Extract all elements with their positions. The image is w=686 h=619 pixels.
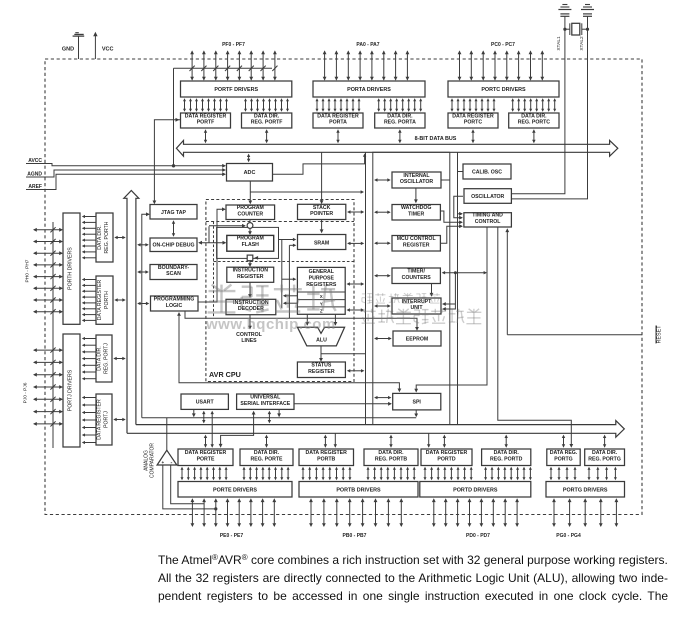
svg-text:8-BIT DATA BUS: 8-BIT DATA BUS [415,136,457,142]
arrow into OCD tap square [254,256,258,260]
bus link arrow data register PORTG [562,435,565,448]
wire TIMER/COUNTERS to timing line [442,271,487,274]
wire ADC output to data bus [273,153,367,174]
svg-text:DATA DIR.REG. PORTA: DATA DIR.REG. PORTA [384,113,416,125]
DATA REGISTER PORTD block [421,449,472,466]
svg-text:DATA DIR.REG. PORTD: DATA DIR.REG. PORTD [490,450,523,462]
RESET label with overline [656,325,663,344]
dashed divider above instruction register row [214,261,355,263]
pin label PF0 - PF7 [222,42,245,48]
svg-text:CONTROLLINES: CONTROLLINES [236,332,262,344]
bus link arrow data register PORTE [204,435,207,448]
wire ADC result to trunk [250,190,364,193]
svg-text:DATA DIR.REG. PORTF: DATA DIR.REG. PORTF [251,113,283,125]
debug access loop around PROGRAM FLASH [217,227,279,258]
arrow INSTRUCTION REGISTER to INSTRUCTION DECODER [248,282,252,298]
link arrow column bus to INTERRUPT UNIT [374,304,391,307]
watermark large characters [208,285,336,313]
DATA REGISTER PORTJ block [96,394,112,445]
AREF label and wire to ADC [26,172,226,190]
svg-text:AREF: AREF [28,184,42,190]
svg-text:XTAL1: XTAL1 [556,36,562,51]
pin label PA0 - PA7 [356,42,379,48]
link arrow column bus to SPI [374,396,391,399]
PJ0 - PJ6 pin label [23,382,29,403]
svg-text:PORTJ: PORTJ [103,411,109,428]
DATA DIR. REG. PORTJ block [96,335,112,382]
AVR CPU dashed boundary [206,200,354,382]
bus link arrow data dir register PORTG [603,435,606,448]
svg-text:PF0 - PF7: PF0 - PF7 [222,42,245,48]
DATA DIR. REG. PORTD block [482,449,531,466]
bus link arrow ADC [247,154,250,163]
svg-text:GENERALPURPOSEREGISTERS: GENERALPURPOSEREGISTERS [306,269,337,288]
watermark right row 2 [361,309,482,324]
DATA REGISTER PORTB block [299,449,354,466]
DATA DIR. REG. PORTB block [364,449,418,466]
PROGRAMMING LOGIC block [151,296,199,311]
ALU block [297,327,344,346]
wire flash data to GENERAL PURPOSE REGISTERS [282,240,297,309]
extra bus link arrow data register PORTB [334,433,337,447]
arrow cluster PORTJ drivers to data register [82,396,96,444]
arrow cluster PORTJ drivers to data dir register [82,337,96,380]
arrow cluster data dir PORTB to drivers [367,467,416,480]
svg-text:DATA DIR.REG. PORTC: DATA DIR.REG. PORTC [518,113,551,125]
svg-text:PH0 - PH7: PH0 - PH7 [25,259,31,282]
DATA REGISTER PORTA block [313,113,363,128]
svg-text:ADC: ADC [244,170,256,176]
arrow STACK POINTER to SRAM [320,220,324,234]
svg-text:COMPARATOR: COMPARATOR [150,443,156,478]
svg-text:INSTRUCTIONREGISTER: INSTRUCTIONREGISTER [233,268,269,280]
DATA DIR. REG. PORTH block [96,213,113,262]
wire ADC and data bus down to PROGRAM COUNTER [248,181,252,204]
wire ON-CHIP DEBUG to tap circle [209,224,246,243]
PORTC pin arrows PC0 - PC7 [458,50,545,80]
wire ON-CHIP DEBUG to flash [198,241,226,245]
bus link arrow data dir register PORTB [389,435,392,448]
wire timing control line B to PORTG registers [498,227,573,448]
EEPROM block [393,331,441,346]
link arrow column bus to INTERNAL OSCILLATOR [374,178,391,181]
wire PROGRAMMING LOGIC to PROGRAM COUNTER and flash [198,207,226,302]
INTERNAL OSCILLATOR block [392,172,441,188]
arrow cluster data register PORTB to drivers [302,467,352,480]
extra bus link arrow data register PORTD [427,433,430,447]
svg-text:PORTF DRIVERS: PORTF DRIVERS [214,87,258,93]
link arrow DATA REGISTER PORTH to internal bus [114,298,125,301]
svg-text:DATA DIR.REG. PORTE: DATA DIR.REG. PORTE [251,450,284,462]
AGND label and wire to ADC [26,168,226,177]
PORTD DRIVERS block [420,482,531,498]
dashed chip boundary border [45,59,642,515]
DATA DIR. REG. PORTF block [242,113,292,128]
link arrow column bus to WATCHDOG TIMER [374,211,391,214]
PORTJ DRIVERS block [63,334,80,447]
8-bit data bus top double-ended bus arrow [176,140,617,156]
8-bit data bus bottom arrow [127,421,624,438]
arrow cluster data register PORTG to drivers [550,467,577,480]
svg-text:USART: USART [196,400,215,406]
OCD tap circle on flash address path [247,223,253,229]
watermark right row 1 [362,293,440,303]
ADC block [227,164,273,182]
BOUNDARY-SCAN block [150,265,197,280]
TIMING AND CONTROL block [464,213,512,227]
big internal bus up-arrow to ports H and J [124,191,139,434]
wire into JTAG TAP left [142,212,150,417]
svg-text:DATA DIR.REG. PORTB: DATA DIR.REG. PORTB [375,450,408,462]
ON-CHIP DEBUG block [150,238,197,252]
bus link arrow DATA DIR REG PORTF [265,129,269,143]
arrow cluster data dir PORTG to drivers [588,467,617,480]
svg-text:STATUSREGISTER: STATUSREGISTER [308,363,335,375]
OCD tap square on flash data path [247,255,253,261]
wire pointer registers to SRAM [289,244,296,319]
svg-text:DATA DIR.REG. PORTG: DATA DIR.REG. PORTG [588,450,621,462]
PORTA pin arrows PA0 - PA7 [323,50,410,80]
svg-text:AVR CPU: AVR CPU [209,370,241,379]
svg-text:GND: GND [62,47,74,53]
svg-text:ON-CHIP DEBUG: ON-CHIP DEBUG [153,243,195,249]
svg-text:OSCILLATOR: OSCILLATOR [471,194,504,200]
PORTC DRIVERS block [448,81,559,97]
INSTRUCTION DECODER block [226,299,276,314]
PORTB DRIVERS block [299,482,418,498]
link arrow SRAM to trunk [347,242,364,245]
PORTE DRIVERS block [178,482,292,498]
arrow SPI to serial line [414,410,418,417]
DATA REGISTER PORTC block [448,113,498,128]
USART bus wires [192,409,214,447]
DATA DIR. REG. PORTG block [585,449,625,466]
arrow TIMER/COUNTERS to INTERRUPT UNIT [430,284,434,297]
PORTG DRIVERS block [546,482,625,498]
XTAL1 ground and capacitor symbol [558,5,571,17]
dashed divider under program counter row [206,221,354,223]
8-BIT DATA BUS label [415,136,457,142]
pin label PD0 - PD7 [466,533,490,539]
wire flash to INSTRUCTION REGISTER [248,261,252,267]
link arrow column bus to EEPROM [374,337,392,340]
bus link arrow data register PORTD [443,435,446,448]
wire CALIB OSC link [458,171,464,173]
wire timing control line C from RESET [505,228,642,334]
wire MCU CONTROL REGISTER to TIMING AND CONTROL [440,224,463,243]
link arrow trunk to Z register [347,308,365,311]
wire data bus down to STACK POINTER [320,152,324,204]
svg-text:+: + [161,460,164,465]
svg-text:PJ0 - PJ6: PJ0 - PJ6 [23,382,29,403]
svg-text:SRAM: SRAM [314,240,329,246]
arrow cluster PORTH drivers to data register [82,278,96,322]
watermark url [206,316,336,333]
XTAL2 ground and capacitor symbol [581,5,594,17]
bus link arrow DATA DIR REG PORTC [532,129,536,143]
svg-text:PB0 - PB7: PB0 - PB7 [343,533,367,539]
svg-text:PORTB DRIVERS: PORTB DRIVERS [336,487,381,493]
PORTE pin arrows [191,498,277,527]
caption paragraph [158,549,678,605]
analog input feed line from PORTF pins to ADC [172,66,278,168]
PH0 - PH7 pin label [25,259,31,282]
STATUS REGISTER block [297,362,345,378]
svg-text:RESET: RESET [657,325,663,344]
svg-text:STACKPOINTER: STACKPOINTER [310,205,333,217]
svg-text:TIMING ANDCONTROL: TIMING ANDCONTROL [472,213,503,225]
arrow cluster data register PORTD to drivers [424,467,473,480]
svg-text:PORTE DRIVERS: PORTE DRIVERS [213,487,257,493]
peripherals column frame [373,152,458,424]
svg-text:EEPROM: EEPROM [406,337,428,343]
XTAL1 label [556,36,562,51]
MCU CONTROL REGISTER block [392,236,440,252]
arrow to control lines [248,315,252,330]
wire timer to INTERRUPT UNIT inputs [442,271,457,311]
svg-text:ANALOG: ANALOG [143,450,149,471]
PORTD pin arrows [432,498,519,527]
AVR CPU label [209,370,241,379]
bus link arrow DATA DIR REG PORTA [398,129,402,143]
pin label PB0 - PB7 [343,533,367,539]
svg-text:PD0 - PD7: PD0 - PD7 [466,533,490,539]
arrows GPR to ALU [305,314,337,326]
svg-text:PORTD DRIVERS: PORTD DRIVERS [453,487,498,493]
wire timing control line A to SPI [414,227,487,393]
svg-text:XTAL2: XTAL2 [579,36,585,51]
VCC label [102,47,114,53]
PORTJ pin arrows [33,348,63,426]
link arrow trunk to STATUS REGISTER [347,369,365,372]
pin label PG0 - PG4 [556,533,581,539]
link arrow internal bus to PROGRAMMING LOGIC [137,302,149,305]
arrow cluster PORTC drivers to data register [451,98,496,111]
bus link arrow data dir register PORTE [265,435,268,448]
USART block [181,394,228,409]
SPI block [393,393,441,410]
STACK POINTER block [298,204,346,219]
PORTH pin arrows [33,228,63,314]
svg-text:AGND: AGND [27,171,42,177]
arrow INTERNAL OSCILLATOR to WATCHDOG TIMER [414,188,418,203]
svg-text:PORTH DRIVERS: PORTH DRIVERS [68,247,74,290]
DATA REGISTER PORTH block [96,276,113,324]
svg-text:DATA DIR.: DATA DIR. [97,346,103,370]
svg-text:REG. PORTJ: REG. PORTJ [103,343,109,374]
link arrow STACK POINTER to trunk [347,210,364,213]
svg-text:PE0 - PE7: PE0 - PE7 [220,533,244,539]
left analog crossing line with ticks PORTH/PORTJ [50,222,55,448]
bus link arrow data dir register PORTD [505,435,508,448]
wire WATCHDOG to TIMING AND CONTROL [440,211,463,224]
svg-text:PA0 - PA7: PA0 - PA7 [356,42,379,48]
wire PROGRAM FLASH to SRAM [279,238,297,241]
dashed flash section boundary [213,222,215,319]
PORTF pin arrows PF0 - PF7 [190,50,277,80]
VCC pin arrow [93,32,97,59]
PROGRAM COUNTER block [226,205,275,220]
svg-text:AVCC: AVCC [28,158,42,164]
CONTROL LINES label [236,332,262,344]
svg-text:PORTC DRIVERS: PORTC DRIVERS [481,87,526,93]
svg-text:PORTG DRIVERS: PORTG DRIVERS [563,487,608,493]
USI bus wires [219,409,281,447]
wire XTAL1 to oscillator [511,16,565,194]
wire from DATA REGISTER PORTF to JTAG TAP [153,118,181,204]
wire XTAL2 to oscillator [511,16,587,199]
arrow cluster PORTF drivers to data direction register [244,98,289,111]
arrow cluster PORTA drivers to data register [316,98,361,111]
DATA DIR. REG. PORTC block [509,113,559,128]
INTERRUPT UNIT block [392,298,441,314]
svg-text:PORTH: PORTH [104,291,110,309]
wire OSCILLATOR to TIMING AND CONTROL [454,196,463,219]
PORTG pin arrows [552,498,618,527]
PROGRAM FLASH block [227,235,274,251]
wire Y register tap [283,302,298,305]
link arrow internal bus to ON-CHIP DEBUG [137,243,149,246]
bus link arrow DATA REGISTER PORTA [336,129,339,143]
DATA REGISTER PORTE block [178,449,233,466]
wire X register tap [283,294,298,297]
long wire programming logic to EEPROM [185,311,419,331]
svg-text:PORTJ DRIVERS: PORTJ DRIVERS [68,369,74,411]
CALIB. OSC block [463,164,511,179]
wire vertical data bus branch left of peripherals column [365,152,367,424]
svg-text:DATA REGISTER: DATA REGISTER [97,280,103,321]
comparator input wires from PE pins [163,465,218,511]
ANALOG COMPARATOR label [143,443,155,478]
svg-text:CALIB. OSC: CALIB. OSC [472,170,502,176]
wire ALU to STATUS REGISTER [319,346,365,362]
GENERAL PURPOSE REGISTERS block with X Y Z [297,267,345,314]
link arrow DATA REGISTER PORTJ to internal bus [113,418,125,421]
svg-text:VCC: VCC [102,47,114,53]
link arrow column bus to MCU CONTROL REGISTER [374,242,391,245]
DATA DIR. REG. PORTE block [240,449,293,466]
INSTRUCTION REGISTER block [227,267,274,282]
link arrow trunk to GENERAL PURPOSE REGISTERS [347,282,365,285]
svg-text:PC0 - PC7: PC0 - PC7 [491,42,515,48]
svg-text:PROGRAMCOUNTER: PROGRAMCOUNTER [237,205,264,217]
arrow cluster PORTF drivers to data register [183,98,228,111]
serial programming wire PROGRAMMING LOGIC to SPI [177,312,401,392]
arrow cluster PORTC drivers to data direction register [511,98,556,111]
svg-text:JTAG TAP: JTAG TAP [161,210,186,216]
svg-text:ALU: ALU [316,337,327,343]
wire PROGRAM COUNTER into flash [248,220,252,236]
ground symbol GND pin [73,33,85,59]
JTAG TAP block [150,205,197,220]
bus link arrow DATA REGISTER PORTF [204,129,207,143]
XTAL2 label [579,36,585,51]
link arrow internal bus to BOUNDARY-SCAN [137,270,149,273]
wire CALIB OSC to TIMING AND CONTROL [458,212,463,216]
svg-text:PG0 - PG4: PG0 - PG4 [556,533,581,539]
SRAM block [298,235,346,250]
arrow cluster PORTA drivers to data direction register [377,98,422,111]
link arrow DATA DIR PORTJ to internal bus [113,357,125,360]
svg-text:DATA DIR.: DATA DIR. [97,225,103,249]
TIMER/COUNTERS block [392,268,440,284]
svg-text:DATA REGISTER: DATA REGISTER [97,399,103,440]
pin label PC0 - PC7 [491,42,515,48]
comparator output wire to serial line [142,418,416,451]
svg-text:REG. PORTH: REG. PORTH [104,221,110,253]
arrow cluster data dir PORTE to drivers [243,467,290,480]
svg-text:INTERNALOSCILLATOR: INTERNALOSCILLATOR [400,173,433,185]
DATA REGISTER PORTF block [181,113,231,128]
GND label [62,47,74,53]
link arrow DATA DIR PORTH to internal bus [114,236,125,239]
UNIVERSAL SERIAL INTERFACE block [237,394,294,409]
DATA REGISTER PORTG block [547,449,580,466]
AVCC label and wire to ADC [26,158,226,168]
svg-text:PORTA DRIVERS: PORTA DRIVERS [347,87,391,93]
svg-text:SPI: SPI [413,400,422,406]
bus link arrow data register PORTB [324,435,327,448]
analog comparator triangle [157,450,177,466]
PORTA DRIVERS block [313,81,425,97]
arrow cluster data dir PORTD to drivers [484,467,532,480]
PORTF DRIVERS block [181,81,292,97]
OSCILLATOR block [464,189,511,204]
bus link arrow DATA REGISTER PORTC [471,129,474,143]
PORTB pin arrows [309,498,403,527]
arrow cluster data register PORTE to drivers [181,467,228,480]
wire serial interface to SPI [294,402,392,406]
svg-text:X: X [320,294,323,299]
crystal symbol between XTAL1 and XTAL2 [563,23,589,35]
wire INTERNAL OSCILLATOR to column line [441,179,450,181]
DATA DIR. REG. PORTA block [375,113,425,128]
link arrow column bus to TIMER/COUNTERS [374,274,391,277]
arrow cluster PORTH drivers to data dir register [82,215,96,260]
pin label PE0 - PE7 [220,533,244,539]
PORTH DRIVERS block [63,213,80,324]
link arrow JTAG TAP to ON-CHIP DEBUG [172,220,175,236]
WATCHDOG TIMER block [392,205,440,221]
